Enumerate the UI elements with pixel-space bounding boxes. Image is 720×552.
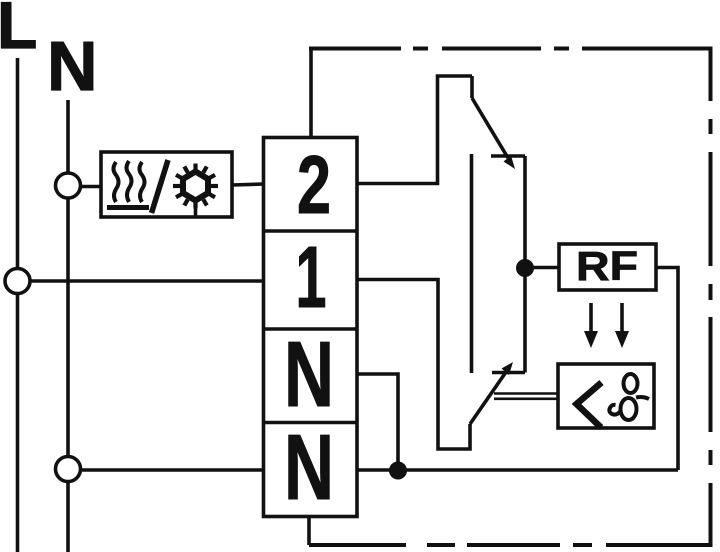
wire N vertical bbox=[66, 100, 70, 552]
svg-text:RF: RF bbox=[576, 243, 638, 289]
svg-text:1: 1 bbox=[296, 229, 327, 326]
RF receiver box bbox=[559, 244, 656, 290]
snowflake stem to box edge bbox=[194, 203, 198, 217]
wire L to terminal 1 bbox=[18, 279, 264, 283]
wire terminal N upper to junction bbox=[357, 374, 398, 470]
fan coil unit box bbox=[558, 364, 654, 428]
wire RF box to N return bbox=[656, 268, 678, 471]
enclosure dash-dot border top bbox=[309, 47, 713, 51]
terminal divider 2/1 bbox=[264, 229, 358, 233]
signal arrow left bbox=[589, 303, 593, 333]
signal arrow right bbox=[620, 303, 624, 333]
relay lower throw stub bbox=[492, 371, 525, 375]
relay upper throw stub bbox=[491, 154, 525, 158]
terminal divider 1/N bbox=[264, 327, 358, 331]
heating symbol wavy line 3 bbox=[140, 162, 145, 202]
heating/cooling mode box bbox=[101, 152, 232, 217]
wire N to heat/cool box bbox=[68, 185, 101, 189]
wire junction to RF box bbox=[525, 266, 559, 270]
wire heat/cool box to terminal 2 bbox=[232, 184, 264, 185]
relay switch upper blade arrowhead bbox=[504, 156, 516, 170]
stub terminal block bottom to enclosure border bbox=[307, 517, 311, 546]
heating symbol wavy line 1 bbox=[114, 162, 119, 202]
wire terminal N lower to RF return bbox=[357, 468, 678, 472]
fan coil double wire bbox=[494, 392, 558, 395]
relay switch lower blade arrowhead bbox=[502, 362, 514, 375]
snowflake (cooling symbol) bbox=[173, 164, 218, 209]
mode slash bbox=[152, 160, 169, 213]
wire terminal 1 to lower switch bbox=[357, 280, 470, 450]
relay common rail (right) bbox=[523, 156, 527, 373]
fan coil squiggle symbol bbox=[609, 374, 649, 420]
fan coil chevron symbol bbox=[577, 383, 602, 428]
relay fixed contact rail (left) bbox=[470, 154, 474, 373]
terminal N upper circle bbox=[56, 173, 81, 198]
terminal L circle bbox=[5, 269, 30, 294]
terminal block outline bbox=[264, 138, 358, 517]
wire N bottom to terminal N bbox=[68, 468, 264, 472]
terminal N lower circle bbox=[56, 457, 81, 482]
wire terminal 2 to relay switch bbox=[357, 76, 472, 184]
stub terminal block top to enclosure border bbox=[309, 48, 313, 138]
svg-text:N: N bbox=[284, 322, 334, 426]
wire L vertical bbox=[16, 58, 20, 552]
relay switch lower blade bbox=[470, 372, 506, 424]
svg-text:N: N bbox=[284, 415, 334, 519]
enclosure dash-dot border right bbox=[709, 47, 713, 548]
heating symbol base bar bbox=[107, 205, 149, 210]
junction dot on N wire bbox=[389, 462, 407, 480]
svg-text:2: 2 bbox=[297, 138, 331, 231]
heating symbol wavy line 2 bbox=[127, 161, 132, 202]
relay switch upper blade bbox=[472, 98, 508, 158]
enclosure dash-dot border bottom bbox=[309, 543, 713, 547]
junction dot at RF input bbox=[516, 259, 534, 277]
relay switch upper blade pivot stub bbox=[470, 76, 474, 98]
svg-text:L: L bbox=[0, 0, 37, 62]
terminal divider N/N bbox=[264, 421, 358, 425]
svg-text:N: N bbox=[47, 27, 98, 105]
